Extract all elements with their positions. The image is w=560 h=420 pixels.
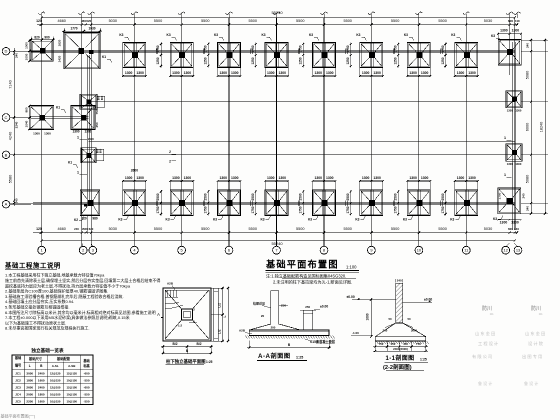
svg-text:1300: 1300 [184, 71, 192, 75]
svg-text:5500: 5500 [201, 227, 209, 231]
svg-text:5500: 5500 [201, 19, 209, 23]
svg-text:1: 1 [41, 248, 43, 253]
svg-text:4240: 4240 [9, 132, 13, 140]
svg-text:5030: 5030 [109, 19, 117, 23]
svg-text:K1: K1 [102, 55, 106, 59]
svg-text:基础: 基础 [14, 355, 22, 360]
svg-text:柱下独立基础平面图: 柱下独立基础平面图 [166, 358, 206, 365]
svg-text:-600: -600 [83, 385, 89, 389]
svg-text:L: L [29, 364, 31, 368]
svg-text:1300: 1300 [373, 71, 381, 75]
svg-text:JC3: JC3 [15, 385, 21, 389]
svg-text:1250: 1250 [204, 57, 208, 64]
svg-text:1300: 1300 [231, 71, 239, 75]
svg-text:6: 6 [228, 248, 230, 253]
svg-text:1600: 1600 [38, 399, 45, 403]
svg-text:标高: 标高 [82, 363, 90, 368]
svg-text:2100: 2100 [88, 137, 94, 141]
svg-text:1: 1 [77, 136, 79, 140]
svg-text:5500: 5500 [343, 19, 351, 23]
svg-text:基础平面布置图: 基础平面布置图 [265, 259, 339, 270]
svg-text:1250: 1250 [298, 57, 302, 64]
svg-text:800: 800 [99, 148, 103, 153]
svg-text:JC2: JC2 [15, 378, 21, 382]
svg-text:5500: 5500 [391, 227, 399, 231]
svg-text:120: 120 [36, 19, 42, 23]
svg-text:K3: K3 [260, 218, 264, 222]
svg-text:1300: 1300 [457, 176, 465, 180]
svg-text:co.: co. [539, 312, 544, 316]
svg-text:-600: -600 [83, 371, 89, 375]
svg-text:2400: 2400 [38, 385, 45, 389]
svg-text:1750: 1750 [441, 45, 445, 52]
svg-text:1300: 1300 [500, 220, 508, 224]
svg-text:12@120: 12@120 [66, 371, 77, 375]
svg-text:K2: K2 [74, 218, 78, 222]
svg-text:2500: 2500 [156, 193, 160, 200]
svg-text:1750: 1750 [346, 45, 350, 52]
svg-text:1250: 1250 [156, 57, 160, 64]
svg-text:18240: 18240 [540, 122, 544, 133]
svg-text:基础工程施工说明: 基础工程施工说明 [4, 261, 61, 270]
svg-text:1300: 1300 [136, 176, 144, 180]
svg-text:240: 240 [514, 227, 519, 231]
svg-text:5500: 5500 [249, 19, 257, 23]
svg-text:1:25: 1:25 [206, 360, 213, 364]
svg-text:55240: 55240 [271, 10, 283, 15]
svg-text:20: 20 [261, 314, 265, 318]
svg-text:K3: K3 [308, 218, 312, 222]
svg-text:1300: 1300 [421, 71, 429, 75]
svg-text:1300: 1300 [373, 176, 381, 180]
svg-text:2500: 2500 [441, 193, 445, 200]
svg-text:1: 1 [504, 136, 506, 140]
svg-text:K1: K1 [68, 161, 72, 165]
svg-text:1300: 1300 [362, 71, 370, 75]
svg-text:K3: K3 [451, 33, 455, 37]
svg-text:K3: K3 [309, 33, 313, 37]
svg-text:1750: 1750 [498, 192, 502, 199]
svg-text:1750: 1750 [393, 206, 397, 213]
svg-text:JC1: JC1 [15, 371, 21, 375]
svg-text:750: 750 [95, 109, 99, 114]
svg-text:13: 13 [516, 248, 520, 253]
svg-text:1800: 1800 [38, 392, 45, 396]
svg-text:A: A [5, 202, 8, 207]
svg-text:4660: 4660 [57, 227, 65, 231]
svg-text:5500: 5500 [343, 227, 351, 231]
svg-text:基础平面布置图(一): 基础平面布置图(一) [1, 413, 36, 419]
svg-text:900: 900 [44, 36, 50, 40]
svg-text:240: 240 [526, 43, 530, 48]
svg-text:1250: 1250 [441, 57, 445, 64]
svg-text:820: 820 [34, 36, 40, 40]
svg-text:1000: 1000 [366, 313, 370, 320]
svg-text:240: 240 [15, 198, 19, 203]
svg-text:编号: 编号 [15, 363, 22, 368]
svg-text:1300: 1300 [409, 71, 417, 75]
svg-text:A: A [157, 312, 160, 317]
svg-text:1750: 1750 [204, 206, 208, 213]
svg-text:鲁 设 计: 鲁 设 计 [478, 380, 492, 386]
svg-text:1300: 1300 [326, 71, 334, 75]
svg-text:1300: 1300 [267, 176, 275, 180]
svg-text:1250: 1250 [346, 57, 350, 64]
svg-text:50: 50 [388, 317, 392, 321]
svg-text:250: 250 [95, 122, 99, 127]
svg-text:1300: 1300 [219, 71, 227, 75]
svg-text:9: 9 [370, 248, 372, 253]
svg-text:2600: 2600 [131, 169, 139, 173]
svg-text:10@150: 10@150 [66, 378, 77, 382]
svg-text:2500: 2500 [204, 193, 208, 200]
svg-text:L: L [223, 315, 227, 317]
svg-text:1300: 1300 [33, 132, 40, 136]
svg-text:基础: 基础 [82, 358, 90, 363]
svg-text:2500: 2500 [298, 193, 302, 200]
svg-text:K3: K3 [119, 33, 123, 37]
svg-text:1040: 1040 [25, 120, 29, 127]
svg-text:1750: 1750 [346, 206, 350, 213]
svg-text:5500: 5500 [296, 19, 304, 23]
svg-text:1750: 1750 [251, 45, 255, 52]
svg-text:1300: 1300 [515, 162, 521, 166]
svg-text:1560: 1560 [81, 227, 88, 231]
svg-text:10@150: 10@150 [66, 392, 77, 396]
svg-text:10@100: 10@100 [66, 399, 77, 403]
svg-text:1300: 1300 [172, 176, 180, 180]
svg-text:±0.00: ±0.00 [424, 297, 432, 301]
svg-text:注:1.独立基础配筋构造见国标图集04SG320.: 注:1.独立基础配筋构造见国标图集04SG320. [266, 273, 346, 279]
svg-text:1300: 1300 [72, 130, 79, 134]
svg-text:±0.00: ±0.00 [347, 295, 355, 299]
svg-text:1600: 1600 [38, 378, 45, 382]
svg-text:5500: 5500 [296, 227, 304, 231]
svg-text:300: 300 [383, 329, 388, 333]
svg-text:7.本工程±0.000以下采用M5水泥砂浆(具体做法参照总说: 7.本工程±0.000以下采用M5水泥砂浆(具体做法参照总说明)砌筑,0.15米 [5, 314, 130, 320]
svg-text:1750: 1750 [204, 45, 208, 52]
svg-text:K3: K3 [356, 33, 360, 37]
svg-text:K3: K3 [403, 218, 407, 222]
svg-text:K3: K3 [166, 218, 170, 222]
svg-text:2200: 2200 [26, 399, 33, 403]
svg-text:K3: K3 [450, 218, 454, 222]
svg-text:50: 50 [407, 317, 411, 321]
svg-text:JC5: JC5 [15, 399, 21, 403]
svg-text:A-SL: A-SL [52, 364, 59, 368]
svg-text:620: 620 [86, 19, 91, 23]
svg-text:超挖基底持力层应为老土层,不得扰动,持力层承载力特征值不小于: 超挖基底持力层应为老土层,不得扰动,持力层承载力特征值不小于70kpa [5, 282, 131, 288]
svg-text:1: 1 [504, 173, 506, 177]
svg-text:1250: 1250 [393, 57, 397, 64]
svg-text:1300: 1300 [84, 130, 91, 134]
svg-text:L/2: L/2 [218, 303, 222, 308]
svg-text:1-1剖面图: 1-1剖面图 [386, 354, 415, 362]
svg-text:980: 980 [92, 217, 98, 221]
svg-text:240: 240 [74, 227, 79, 231]
svg-text:C: C [5, 115, 8, 120]
svg-text:240: 240 [522, 193, 526, 198]
svg-text:K3: K3 [261, 33, 265, 37]
svg-text:1.本工程基础采用柱下独立基础,地基承载力特征值70kpa: 1.本工程基础采用柱下独立基础,地基承载力特征值70kpa [5, 272, 105, 278]
svg-text:1420: 1420 [58, 55, 62, 62]
svg-text:5.条形基础交接处钢筋互相锚固搭接.: 5.条形基础交接处钢筋互相锚固搭接. [5, 304, 69, 310]
svg-text:2400(2000): 2400(2000) [393, 347, 408, 351]
svg-text:B/2: B/2 [173, 342, 178, 346]
svg-text:co.: co. [490, 312, 495, 316]
svg-text:600: 600 [508, 227, 513, 231]
svg-text:(2-2剖面图): (2-2剖面图) [383, 363, 412, 371]
svg-text:鲁 设 计: 鲁 设 计 [524, 380, 538, 386]
svg-text:1300: 1300 [468, 71, 476, 75]
svg-text:1750: 1750 [156, 45, 160, 52]
svg-text:12: 12 [504, 248, 508, 253]
svg-text:2400: 2400 [38, 371, 45, 375]
svg-text:-550: -550 [83, 378, 89, 382]
svg-text:2: 2 [169, 160, 171, 164]
svg-text:1750: 1750 [393, 45, 397, 52]
svg-text:施工前首先清除表土层,确保埋土坚实,然后分层夯实垫层,回填第: 施工前首先清除表土层,确保埋土坚实,然后分层夯实垫层,回填第二大层土合格后结束不… [5, 277, 160, 283]
svg-text:1300: 1300 [362, 176, 370, 180]
svg-text:750: 750 [416, 342, 421, 346]
svg-text:2500: 2500 [251, 193, 255, 200]
svg-text:5080: 5080 [526, 175, 530, 183]
svg-text:K3: K3 [404, 33, 408, 37]
svg-text:A2B: A2B [167, 282, 174, 286]
svg-text:450: 450 [391, 342, 396, 346]
svg-text:1300: 1300 [409, 176, 417, 180]
svg-text:A-A剖面图: A-A剖面图 [258, 352, 291, 360]
svg-text:K3: K3 [167, 33, 171, 37]
svg-text:1300: 1300 [457, 71, 465, 75]
svg-text:10@150: 10@150 [50, 399, 61, 403]
svg-text:5500: 5500 [249, 227, 257, 231]
svg-text:K1: K1 [56, 106, 60, 110]
svg-text:独立基础一览表: 独立基础一览表 [30, 347, 64, 354]
svg-text:5500: 5500 [154, 227, 162, 231]
svg-text:1300: 1300 [314, 176, 322, 180]
svg-text:6.本图所注尺寸除标高以米计,其余均以毫米计,标高相对绝对标: 6.本图所注尺寸除标高以米计,其余均以毫米计,标高相对绝对标高见总图,参看施工说… [5, 309, 156, 315]
svg-text:1300: 1300 [267, 71, 275, 75]
svg-text:防川: 防川 [531, 305, 541, 312]
svg-text:设 计 院: 设 计 院 [528, 340, 544, 347]
svg-text:山 东 金 田: 山 东 金 田 [525, 330, 545, 337]
svg-text:K3: K3 [355, 218, 359, 222]
svg-text:1:2: 1:2 [178, 324, 182, 328]
svg-text:防川: 防川 [482, 305, 492, 312]
svg-text:1300: 1300 [468, 176, 476, 180]
svg-text:1300: 1300 [500, 29, 508, 33]
svg-text:1300: 1300 [125, 176, 133, 180]
svg-text:1300: 1300 [125, 71, 133, 75]
svg-text:5080: 5080 [526, 71, 530, 79]
svg-text:1750: 1750 [251, 206, 255, 213]
svg-text:800: 800 [100, 95, 104, 100]
svg-text:10@100: 10@100 [50, 392, 61, 396]
svg-text:山 东 金 田: 山 东 金 田 [475, 330, 495, 337]
svg-text:11: 11 [464, 248, 468, 253]
svg-text:A-SB: A-SB [68, 364, 76, 368]
svg-text:1750: 1750 [298, 206, 302, 213]
svg-text:-1.00: -1.00 [352, 331, 359, 335]
svg-text:1300: 1300 [515, 109, 521, 113]
svg-text:3600: 3600 [411, 329, 418, 333]
svg-text:1800: 1800 [26, 378, 33, 382]
svg-text:250: 250 [281, 304, 286, 308]
svg-text:C15素混凝土垫层: C15素混凝土垫层 [310, 339, 336, 344]
svg-text:1770: 1770 [70, 27, 77, 31]
svg-text:拉梁详见: 拉梁详见 [253, 301, 265, 306]
svg-text:1750: 1750 [441, 206, 445, 213]
svg-text:2600: 2600 [26, 385, 33, 389]
svg-text:1300: 1300 [44, 132, 51, 136]
svg-text:1250: 1250 [251, 57, 255, 64]
svg-text:工 程 设 计: 工 程 设 计 [478, 340, 498, 347]
svg-text:K3: K3 [493, 217, 497, 221]
svg-text:基础尺寸: 基础尺寸 [28, 356, 43, 361]
svg-text:A2B: A2B [239, 329, 246, 333]
svg-text:1: 1 [77, 171, 79, 175]
svg-text:5030: 5030 [109, 227, 117, 231]
svg-text:4660: 4660 [57, 19, 65, 23]
svg-text:2.未注明的柱下基拉梁均为JL-1,断面见详图.: 2.未注明的柱下基拉梁均为JL-1,断面见详图. [273, 279, 352, 285]
svg-text:K3: K3 [118, 218, 122, 222]
svg-text:120: 120 [36, 227, 42, 231]
svg-text:1300: 1300 [278, 176, 286, 180]
svg-text:1750: 1750 [156, 206, 160, 213]
svg-text:2500: 2500 [393, 193, 397, 200]
svg-text:5500: 5500 [438, 227, 446, 231]
svg-text:3000: 3000 [26, 371, 33, 375]
svg-text:3.基础施工须验槽合格,普钢筋绑扎完毕后,隐蔽工程验收合格后: 3.基础施工须验槽合格,普钢筋绑扎完毕后,隐蔽工程验收合格后浇筑. [5, 293, 124, 299]
svg-text:1300: 1300 [184, 176, 192, 180]
svg-text:1300: 1300 [507, 109, 513, 113]
svg-text:2: 2 [169, 150, 171, 154]
svg-text:5030: 5030 [484, 19, 492, 23]
svg-text:5580: 5580 [9, 175, 13, 183]
svg-text:450: 450 [403, 342, 408, 346]
svg-text:D: D [5, 49, 8, 54]
svg-text:-550: -550 [83, 399, 89, 403]
svg-text:1:25: 1:25 [296, 356, 303, 360]
svg-text:3240: 3240 [15, 121, 19, 128]
svg-text:1:25: 1:25 [420, 358, 427, 362]
svg-text:有 限 公 司: 有 限 公 司 [472, 353, 492, 360]
svg-text:1300: 1300 [136, 71, 144, 75]
svg-text:5500: 5500 [154, 19, 162, 23]
svg-text:960: 960 [25, 107, 29, 112]
svg-text:2: 2 [82, 248, 84, 253]
svg-text:基础配筋: 基础配筋 [56, 356, 71, 361]
svg-text:240: 240 [397, 278, 402, 282]
svg-text:-550: -550 [83, 392, 89, 396]
svg-text:出 图 专 用: 出 图 专 用 [522, 353, 542, 360]
svg-text:10@150: 10@150 [50, 378, 61, 382]
svg-text:7: 7 [275, 248, 277, 253]
svg-text:B: B [5, 152, 8, 157]
svg-text:K3: K3 [213, 218, 217, 222]
svg-text:6000: 6000 [526, 123, 530, 131]
svg-text:1300: 1300 [219, 176, 227, 180]
svg-text:2000: 2000 [26, 392, 33, 396]
svg-text:1300: 1300 [511, 220, 519, 224]
svg-text:1300: 1300 [278, 71, 286, 75]
svg-text:B/2: B/2 [197, 342, 202, 346]
svg-text:以下为基础施工不得扰动原状土层.: 以下为基础施工不得扰动原状土层. [5, 319, 66, 325]
svg-text:240: 240 [15, 53, 19, 58]
svg-text:1620: 1620 [58, 39, 62, 46]
svg-text:3: 3 [92, 248, 94, 253]
svg-text:5030: 5030 [484, 227, 492, 231]
svg-text:1750: 1750 [298, 45, 302, 52]
svg-text:1300: 1300 [172, 71, 180, 75]
svg-text:2.基础垫层为C100厚100,基础保护层厚40,钢筋锚固详: 2.基础垫层为C100厚100,基础保护层厚40,钢筋锚固详图集. [5, 288, 108, 294]
svg-text:5: 5 [181, 248, 183, 253]
svg-text:1300: 1300 [231, 176, 239, 180]
svg-text:240: 240 [526, 206, 530, 211]
svg-text:5500: 5500 [438, 19, 446, 23]
svg-text:1300: 1300 [326, 176, 334, 180]
svg-text:7140: 7140 [9, 80, 13, 88]
svg-text:1300: 1300 [507, 162, 513, 166]
svg-text:1:100: 1:100 [346, 265, 357, 270]
svg-text:K3: K3 [214, 33, 218, 37]
svg-text:2500: 2500 [346, 193, 350, 200]
svg-text:1300: 1300 [512, 29, 520, 33]
svg-text:4.基础回填土应分层夯实,压实系数0.94.: 4.基础回填土应分层夯实,压实系数0.94. [5, 298, 74, 304]
svg-text:K3: K3 [491, 34, 495, 38]
svg-text:8: 8 [323, 248, 325, 253]
svg-text:12@120: 12@120 [50, 371, 61, 375]
svg-text:750: 750 [379, 342, 384, 346]
svg-text:12@100: 12@100 [50, 385, 61, 389]
svg-text:5500: 5500 [391, 19, 399, 23]
svg-text:JC4: JC4 [15, 392, 21, 396]
svg-text:±0.00: ±0.00 [320, 305, 328, 309]
svg-text:1300: 1300 [421, 176, 429, 180]
svg-text:1000: 1000 [25, 53, 29, 60]
svg-text:L/2: L/2 [218, 329, 222, 334]
svg-text:1000: 1000 [25, 42, 29, 49]
svg-text:250: 250 [305, 305, 310, 309]
svg-text:1300: 1300 [314, 71, 322, 75]
svg-text:240: 240 [514, 19, 519, 23]
svg-text:12@100: 12@100 [66, 385, 77, 389]
svg-text:1030: 1030 [88, 27, 95, 31]
svg-text:600: 600 [508, 19, 513, 23]
svg-text:55240: 55240 [271, 241, 283, 246]
svg-text:8.未尽事宜按国家现行有关规范及规程执行施工.: 8.未尽事宜按国家现行有关规范及规程执行施工. [5, 325, 89, 331]
svg-text:200: 200 [271, 326, 276, 330]
